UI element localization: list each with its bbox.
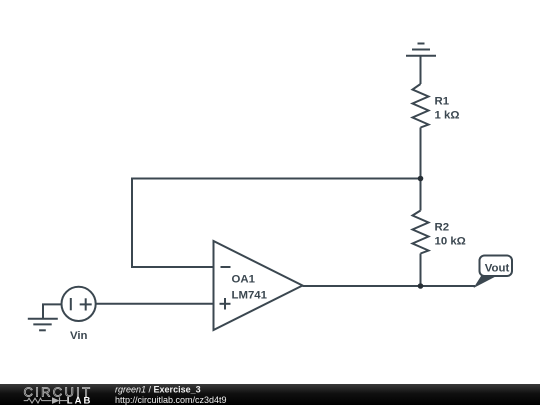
op-amp plus sign: [220, 298, 231, 310]
footer bar: [0, 384, 540, 405]
output node junction dot: [418, 283, 424, 289]
logo diode: [52, 397, 60, 404]
svg-text:OA1: OA1: [232, 274, 256, 286]
op-amp U1 triangle: [214, 241, 303, 330]
svg-text:rgreen1 / Exercise_3: rgreen1 / Exercise_3: [115, 385, 201, 395]
logo circuit line with resistor: [24, 398, 52, 403]
wire source to ground: [43, 304, 62, 318]
ground GND2 (left): [28, 319, 58, 331]
svg-text:LAB: LAB: [67, 396, 93, 405]
svg-text:Vin: Vin: [70, 330, 88, 342]
resistor R1: [413, 84, 429, 128]
svg-text:R1: R1: [435, 96, 450, 108]
svg-text:http://circuitlab.com/cz3d4t9: http://circuitlab.com/cz3d4t9: [115, 395, 227, 405]
svg-text:10 kΩ: 10 kΩ: [435, 236, 466, 248]
resistor R2: [413, 211, 429, 254]
wire feedback: node A left, down, to inverting input: [132, 179, 421, 268]
flag Vout box: [480, 256, 513, 277]
source plus sign: [80, 298, 92, 310]
wire source plus to op-amp noninverting input: [96, 303, 214, 305]
node A junction dot: [418, 176, 424, 182]
wire R1 to node A: [420, 128, 422, 211]
svg-text:Vout: Vout: [485, 262, 510, 274]
op-amp minus sign: [221, 266, 231, 268]
flag Vout tail: [474, 275, 499, 288]
svg-text:1 kΩ: 1 kΩ: [435, 110, 460, 122]
wire op-amp output to Vout: [303, 285, 476, 287]
svg-text:LM741: LM741: [232, 289, 268, 301]
wire R2 to output node: [420, 254, 422, 287]
source minus bar: [70, 298, 72, 310]
svg-text:R2: R2: [435, 222, 450, 234]
ground GND1 (top): [406, 44, 436, 56]
voltage source V1: [62, 287, 96, 321]
wire ground to R1: [420, 56, 422, 84]
